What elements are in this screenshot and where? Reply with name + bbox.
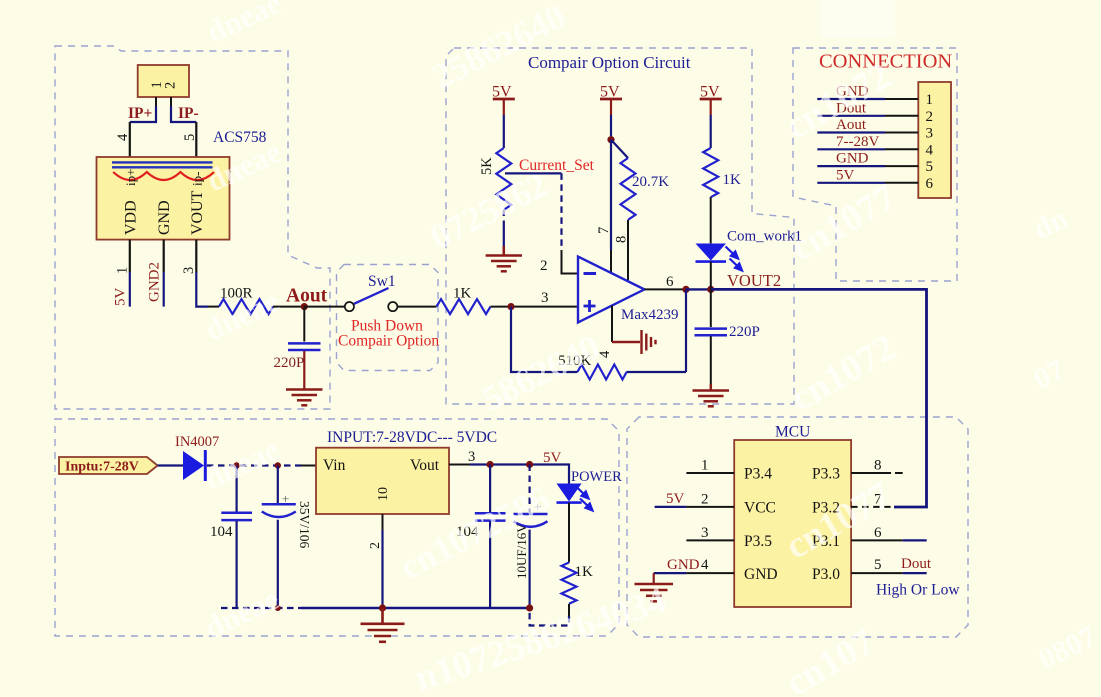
pin 1 stub (black) xyxy=(686,472,734,474)
svg-text:4: 4 xyxy=(701,557,709,573)
wire: dashed jog to ground rail (blue) xyxy=(530,609,569,626)
svg-text:3: 3 xyxy=(701,525,709,541)
pin 3 stub below (VOUT) xyxy=(195,240,197,272)
wire: GND net 2 (blue) xyxy=(817,165,885,167)
wire: Vout to 5V net (blue) xyxy=(470,465,569,484)
svg-text:VOUT2: VOUT2 xyxy=(727,271,781,290)
switch Sw1 contact circles xyxy=(345,302,398,311)
wire: flag to diode (blue) xyxy=(158,464,183,466)
svg-text:1: 1 xyxy=(115,267,131,274)
wire: VOUT2 node down to 220P (black) xyxy=(710,289,712,327)
node junction dot (10UF) xyxy=(526,461,533,468)
svg-text:4: 4 xyxy=(115,133,131,141)
wire: LED cathode to VOUT2 node (black) xyxy=(710,262,712,290)
pin 2 stub (black) xyxy=(885,115,918,117)
svg-text:7: 7 xyxy=(596,227,612,234)
LED arrows xyxy=(726,247,743,271)
capacitor C? 104 input stem xyxy=(236,466,238,512)
pin 5 stub (black) xyxy=(851,572,903,574)
diode D? IN4007 xyxy=(183,450,205,481)
pin 1 stub (black) xyxy=(885,98,918,100)
connector J? (screw terminal 1-2) xyxy=(138,65,189,97)
dashed region box: ACS758 sensor section xyxy=(55,46,330,409)
svg-text:220P: 220P xyxy=(274,355,305,371)
wire: feedback bottom right segment (blue) xyxy=(626,371,686,373)
op-amp U? Max4239 triangle xyxy=(578,257,644,323)
svg-text:GND: GND xyxy=(836,151,869,167)
svg-text:VDD: VDD xyxy=(123,200,140,235)
svg-text:5V: 5V xyxy=(113,288,129,307)
svg-text:5V: 5V xyxy=(666,491,685,507)
wire: 5V middle down to node (blue) xyxy=(610,115,612,140)
wire: pot tap to right (blue) xyxy=(505,172,562,174)
pin 2 stub below regulator (black) xyxy=(382,514,384,530)
resistor R? 5K (vertical) xyxy=(496,148,511,210)
wire: 5V net (blue) xyxy=(817,182,885,184)
pin 2 stub (black) xyxy=(686,506,734,508)
svg-text:5: 5 xyxy=(182,134,198,141)
ground symbol (220P output) xyxy=(693,384,730,406)
switch Sw1 lever xyxy=(354,288,389,304)
wire: 5V to 5K (blue) xyxy=(503,115,505,148)
wire: cap to ground (maroon) xyxy=(303,351,305,389)
svg-text:IP-: IP- xyxy=(178,105,199,122)
wire: blue jogs from connector to IP pins xyxy=(130,106,197,122)
pin 4 stub down (black) xyxy=(611,306,613,343)
svg-text:6: 6 xyxy=(666,274,674,290)
pin 5 stub (black) xyxy=(885,165,918,167)
resistor R? 20.7K (vertical) xyxy=(621,158,636,220)
svg-text:35V/106: 35V/106 xyxy=(297,501,312,549)
node small dot on rail xyxy=(275,605,281,611)
dashed region box: Sw1 push-down option xyxy=(337,265,439,371)
wire: 1K to LED (black) xyxy=(710,197,712,243)
svg-text:10: 10 xyxy=(376,487,391,501)
wire: VOUT2 bus to MCU (blue thick) xyxy=(711,289,927,507)
op-amp plus input mark xyxy=(584,300,596,312)
svg-text:1K: 1K xyxy=(453,286,472,302)
pin 3 stub (black) xyxy=(686,539,734,541)
pin 7 stub into op-amp (black) xyxy=(610,250,612,273)
capacitor C? 10UF/16V electrolytic xyxy=(513,465,547,609)
wire: 220P to ground (black) xyxy=(710,336,712,384)
ground symbol (main rail) xyxy=(361,608,405,642)
svg-text:ip+: ip+ xyxy=(123,169,138,186)
ground rail wire dashed part (blue) xyxy=(221,607,301,609)
dashed region box: CONNECTION xyxy=(793,48,957,281)
node junction dot (104-2) xyxy=(487,461,494,468)
resistor R? 1K (power LED) xyxy=(562,563,577,604)
svg-text:20.7K: 20.7K xyxy=(632,174,669,190)
wire: diode to Vin (dashed blue) xyxy=(207,464,301,466)
svg-text:1K: 1K xyxy=(723,172,742,188)
wire: connector pin stubs (black) xyxy=(156,97,171,107)
wire: 100R to Aout node (black) xyxy=(273,306,304,308)
resistor R? 1K (LED series) xyxy=(703,148,718,197)
wire: VDD dangling blue xyxy=(129,272,131,307)
wire: feedback left segment (blue) xyxy=(511,307,577,372)
capacitor C? 220P plates xyxy=(288,343,321,350)
svg-text:GND: GND xyxy=(744,566,778,583)
wire: 104-2 bottom stem (blue) xyxy=(489,522,491,609)
svg-text:Sw1: Sw1 xyxy=(368,273,396,290)
svg-text:+: + xyxy=(282,491,289,506)
wire: feedback vertical from output (blue) xyxy=(685,289,687,372)
dashed region box: MCU section xyxy=(627,417,968,637)
svg-text:2: 2 xyxy=(540,258,548,274)
wire: pin4 to ground symbol (blue) xyxy=(653,573,655,583)
svg-text:4: 4 xyxy=(926,142,934,158)
wire: 1K bottom (black) xyxy=(568,604,570,616)
svg-text:P3.0: P3.0 xyxy=(812,566,840,583)
resistor R? 1K xyxy=(437,299,491,314)
dashed region box: power input section xyxy=(55,419,619,636)
svg-text:P3.5: P3.5 xyxy=(744,533,772,550)
node junction dot (rail end) xyxy=(526,604,533,611)
svg-text:5: 5 xyxy=(874,557,882,573)
node junction dot (35V cap) xyxy=(275,462,281,468)
resistor R? 510K (feedback) xyxy=(577,365,626,380)
wire: VOUT elbow blue xyxy=(196,272,208,307)
svg-text:7--28V: 7--28V xyxy=(836,134,879,150)
wire: tap down to op-amp pin2 (dashed blue) xyxy=(560,173,562,250)
pin 5 stub of ACS758 xyxy=(195,122,197,157)
svg-text:Dout: Dout xyxy=(901,556,932,572)
svg-text:5V: 5V xyxy=(543,450,562,466)
svg-text:P3.4: P3.4 xyxy=(744,466,772,483)
wire: switch to 1K (black) xyxy=(397,306,436,308)
wire: GND dangling blue xyxy=(163,272,165,307)
svg-text:GND: GND xyxy=(667,557,700,573)
capacitor C? 104 input plates xyxy=(221,513,252,520)
LED D? Com_work1 xyxy=(696,244,743,271)
capacitor C? 220P (output filter) plates xyxy=(695,329,728,336)
pin 8 stub into op-amp (black) xyxy=(627,220,629,281)
wire: output to VOUT2 node (blue) xyxy=(686,288,711,290)
svg-text:2: 2 xyxy=(163,82,179,89)
svg-text:Aout: Aout xyxy=(286,286,328,307)
svg-text:1K: 1K xyxy=(575,564,594,580)
pin stub into Vin (black) xyxy=(301,465,316,467)
svg-text:GND2: GND2 xyxy=(147,262,163,302)
capacitor C? 104 output stem xyxy=(489,465,491,513)
capacitor C? 104 output plates xyxy=(475,513,506,520)
watermark patch top xyxy=(820,0,895,38)
svg-text:2: 2 xyxy=(701,492,709,508)
pin 6 output stub (black) xyxy=(644,288,686,290)
node junction dot at feedback tap xyxy=(507,303,514,310)
svg-text:220P: 220P xyxy=(729,324,760,340)
node Aout junction dot xyxy=(301,303,308,310)
pin 2 stub (black) xyxy=(562,250,579,274)
svg-text:IN4007: IN4007 xyxy=(175,434,219,450)
svg-text:INPUT:7-28VDC--- 5VDC: INPUT:7-28VDC--- 5VDC xyxy=(327,429,497,446)
svg-text:3: 3 xyxy=(468,449,475,465)
svg-text:2: 2 xyxy=(368,542,383,549)
wire: 5V to pin 2 (blue) xyxy=(655,506,687,508)
wire: node down (pin7 net, blue) xyxy=(610,140,612,250)
svg-text:6: 6 xyxy=(926,176,934,192)
wire: Dout net (blue) xyxy=(817,115,885,117)
svg-text:5V: 5V xyxy=(836,167,855,183)
node junction dot (104 cap) xyxy=(233,462,239,468)
ground rail wire (blue) xyxy=(301,607,530,609)
LED D? POWER xyxy=(557,484,593,511)
svg-text:Vout: Vout xyxy=(410,457,440,474)
svg-text:5K: 5K xyxy=(479,157,495,175)
wire: into 100R (black) xyxy=(208,306,219,308)
wire: Aout net (blue) xyxy=(817,131,885,133)
node VOUT2 junction dot xyxy=(707,286,714,293)
power symbol 5V (right) xyxy=(700,84,722,116)
IC U1 ACS758 body xyxy=(97,157,230,240)
power flag Inptu:7-28V xyxy=(59,457,158,475)
wire: GND net (blue) xyxy=(817,98,885,100)
pin 1 stub below (VDD) xyxy=(129,240,131,272)
wire: node diagonal to 20.7K (blue) xyxy=(611,140,628,158)
pin 4 stub (black) xyxy=(885,148,918,150)
svg-text:5: 5 xyxy=(926,159,934,175)
svg-text:2: 2 xyxy=(926,109,934,125)
wire: 1K to op-amp +input (black) xyxy=(491,306,579,308)
power symbol 5V (middle) xyxy=(600,84,622,116)
node output junction dot xyxy=(682,286,689,293)
op-amp minus input mark xyxy=(584,272,597,275)
ground symbol (Aout filter) xyxy=(286,390,323,406)
wire: 7--28V net (blue) xyxy=(817,148,885,150)
regulator U? body xyxy=(316,448,449,514)
svg-text:P3.3: P3.3 xyxy=(812,466,840,483)
ground symbol rotated (op-amp pin4) xyxy=(612,330,656,354)
svg-text:Max4239: Max4239 xyxy=(621,307,679,323)
svg-text:High Or Low: High Or Low xyxy=(876,582,960,599)
wire: 5K to ground (blue) xyxy=(503,210,505,254)
svg-text:Inptu:7-28V: Inptu:7-28V xyxy=(65,460,139,475)
svg-text:GND: GND xyxy=(156,200,173,235)
svg-text:1: 1 xyxy=(926,92,934,108)
power symbol 5V (left) xyxy=(492,84,515,116)
wire: pin 5 dangling (blue) xyxy=(903,572,927,574)
svg-text:8: 8 xyxy=(614,236,630,243)
wire: 104 bottom stem (blue) xyxy=(236,521,238,608)
svg-text:MCU: MCU xyxy=(775,424,810,441)
svg-text:Vin: Vin xyxy=(323,457,346,474)
IC U? MCU body xyxy=(734,440,851,607)
wire: pin 6 dangling (blue) xyxy=(903,539,927,541)
svg-text:3: 3 xyxy=(926,126,934,142)
node junction dot xyxy=(607,136,614,143)
node junction dot (pin2 ground) xyxy=(379,604,386,611)
pin 3 stub from Vout (black) xyxy=(449,464,470,466)
svg-text:VCC: VCC xyxy=(744,500,776,517)
svg-text:IP+: IP+ xyxy=(128,105,153,122)
pin 6 stub (black) xyxy=(851,539,903,541)
wire: 5V right to 1K (blue) xyxy=(710,115,712,148)
pin 3 stub (black) xyxy=(885,132,918,134)
svg-text:3: 3 xyxy=(181,267,197,274)
svg-text:6: 6 xyxy=(874,525,882,541)
svg-text:POWER: POWER xyxy=(571,469,622,485)
current-bar art (double blue lines) xyxy=(112,162,213,167)
dashed region box: Compair Option Circuit xyxy=(446,48,794,404)
pin 2 stub below (GND) xyxy=(163,240,165,272)
svg-text:3: 3 xyxy=(541,290,549,306)
connector P? 6-pin body xyxy=(918,82,951,198)
pin 4 stub of ACS758 xyxy=(129,122,131,157)
resistor R? 100R xyxy=(219,299,273,314)
capacitor C? 35V/106 electrolytic xyxy=(262,466,296,609)
svg-text:104: 104 xyxy=(210,524,233,540)
pin 7 stub (dashed black) xyxy=(851,506,894,508)
wire: gnd to pin 4 (blue) xyxy=(654,572,687,574)
wire: pin2 down to ground rail (blue) xyxy=(381,530,383,608)
coil art (red wavy line) xyxy=(113,172,214,180)
svg-text:ip-: ip- xyxy=(190,172,205,186)
wire: LED to 1K (black) xyxy=(568,503,570,563)
wire: Aout to switch (black) xyxy=(304,306,345,308)
svg-text:8: 8 xyxy=(874,458,882,474)
ground symbol (MCU) xyxy=(635,584,674,601)
pin 6 stub (black) xyxy=(885,182,918,184)
pin 8 stub (black, broken) xyxy=(851,472,903,474)
svg-text:VOUT: VOUT xyxy=(189,190,206,235)
svg-text:Compair Option Circuit: Compair Option Circuit xyxy=(528,53,691,72)
wire: Aout down to C? (black) xyxy=(303,307,305,342)
svg-text:1: 1 xyxy=(701,458,709,474)
ground symbol (5K pot) xyxy=(486,246,522,271)
svg-text:Compair Option: Compair Option xyxy=(338,333,439,350)
